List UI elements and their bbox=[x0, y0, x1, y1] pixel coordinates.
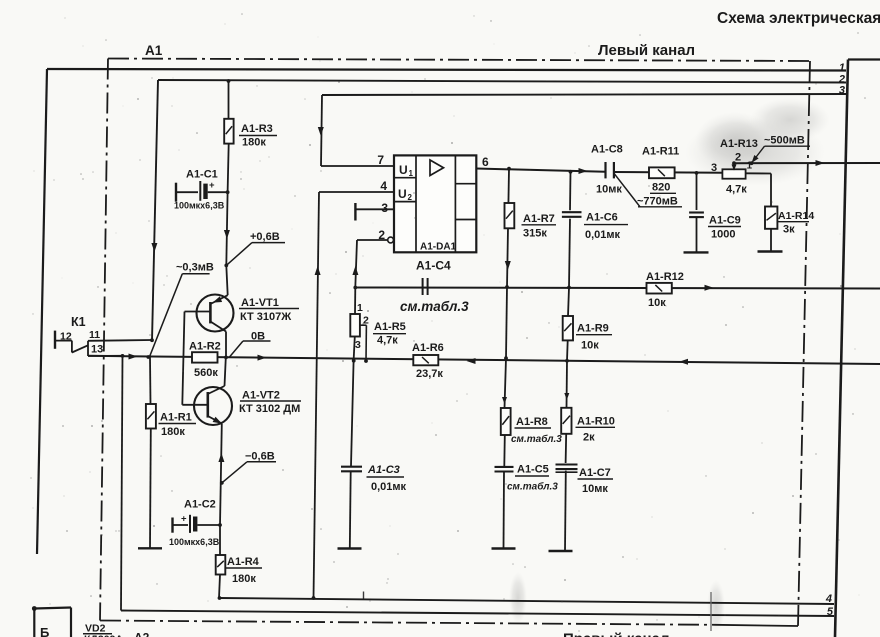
svg-text:А1-R8: А1-R8 bbox=[516, 416, 548, 428]
svg-text:А2: А2 bbox=[134, 631, 150, 637]
svg-text:А1-R11: А1-R11 bbox=[642, 146, 679, 158]
svg-text:3: 3 bbox=[355, 339, 361, 351]
svg-text:11: 11 bbox=[89, 329, 100, 341]
svg-text:А1-DA1: А1-DA1 bbox=[420, 242, 457, 253]
svg-text:см.табл.3: см.табл.3 bbox=[400, 299, 469, 314]
svg-text:0,01мк: 0,01мк bbox=[371, 481, 407, 493]
svg-text:А1: А1 bbox=[145, 43, 163, 58]
svg-text:4,7к: 4,7к bbox=[726, 184, 747, 196]
svg-text:−0,6В: −0,6В bbox=[245, 451, 275, 463]
svg-text:А1-R7: А1-R7 bbox=[523, 213, 555, 225]
svg-text:U: U bbox=[398, 187, 407, 201]
svg-text:3к: 3к bbox=[783, 224, 795, 236]
svg-text:10к: 10к bbox=[648, 297, 666, 309]
svg-text:23,7к: 23,7к bbox=[416, 368, 443, 380]
svg-text:А1-С4: А1-С4 bbox=[416, 259, 451, 273]
svg-text:А1-R5: А1-R5 bbox=[374, 321, 406, 333]
svg-text:А1-С8: А1-С8 bbox=[591, 144, 623, 156]
svg-text:3: 3 bbox=[839, 85, 845, 97]
svg-text:180к: 180к bbox=[161, 426, 185, 438]
svg-text:~0,3мВ: ~0,3мВ bbox=[176, 262, 214, 274]
svg-text:~770мВ: ~770мВ bbox=[637, 196, 678, 208]
svg-text:А1-R4: А1-R4 bbox=[227, 556, 260, 568]
svg-text:А1-VT2: А1-VT2 bbox=[242, 390, 280, 402]
svg-text:А1-С3: А1-С3 bbox=[367, 464, 400, 476]
svg-text:12: 12 bbox=[60, 331, 72, 343]
svg-text:см.табл.3: см.табл.3 bbox=[511, 433, 562, 445]
svg-text:Б: Б bbox=[40, 625, 49, 637]
svg-text:КТ 3102 ДМ: КТ 3102 ДМ bbox=[239, 403, 300, 415]
svg-text:1000: 1000 bbox=[711, 229, 735, 241]
svg-text:3: 3 bbox=[381, 201, 388, 215]
svg-text:А1-R10: А1-R10 bbox=[577, 416, 615, 428]
svg-text:4: 4 bbox=[380, 179, 387, 193]
svg-text:КД209А: КД209А bbox=[84, 634, 123, 637]
svg-text:100мкх6,3В: 100мкх6,3В bbox=[174, 201, 225, 211]
svg-text:180к: 180к bbox=[232, 573, 256, 585]
svg-text:А1-С9: А1-С9 bbox=[709, 215, 741, 227]
svg-text:А1-R9: А1-R9 bbox=[577, 323, 609, 335]
svg-text:3: 3 bbox=[711, 162, 717, 174]
svg-text:А1-R6: А1-R6 bbox=[412, 342, 444, 354]
svg-text:А1-С6: А1-С6 bbox=[586, 212, 618, 224]
svg-text:А1-R12: А1-R12 bbox=[646, 271, 684, 283]
svg-text:100мкх6,3В: 100мкх6,3В bbox=[169, 537, 220, 547]
svg-text:+: + bbox=[181, 514, 187, 525]
svg-text:А1-С7: А1-С7 bbox=[579, 467, 611, 479]
svg-text:0,01мк: 0,01мк bbox=[585, 229, 621, 241]
svg-text:10мк: 10мк bbox=[582, 483, 608, 495]
svg-text:см.табл.3: см.табл.3 bbox=[507, 481, 558, 493]
svg-text:560к: 560к bbox=[194, 367, 218, 379]
svg-text:10мк: 10мк bbox=[596, 184, 622, 196]
svg-text:К1: К1 bbox=[71, 315, 86, 329]
svg-text:2: 2 bbox=[735, 152, 741, 164]
svg-text:А1-С5: А1-С5 bbox=[517, 464, 549, 476]
svg-text:~500мВ: ~500мВ bbox=[764, 135, 805, 147]
svg-text:КТ 3107Ж: КТ 3107Ж bbox=[240, 311, 291, 323]
svg-text:А1-R2: А1-R2 bbox=[189, 341, 221, 353]
svg-text:+0,6В: +0,6В bbox=[250, 231, 280, 243]
svg-text:6: 6 bbox=[482, 155, 489, 169]
svg-text:7: 7 bbox=[377, 153, 384, 167]
svg-text:Левый канал: Левый канал bbox=[598, 42, 695, 59]
svg-text:Схема электрическая: Схема электрическая bbox=[717, 10, 880, 27]
svg-text:А1-VT1: А1-VT1 bbox=[241, 297, 279, 309]
svg-text:1: 1 bbox=[357, 302, 363, 314]
svg-text:U: U bbox=[399, 163, 408, 177]
svg-text:10к: 10к bbox=[581, 340, 599, 352]
svg-text:А1-С1: А1-С1 bbox=[186, 169, 218, 181]
svg-text:1: 1 bbox=[839, 62, 845, 74]
svg-text:5: 5 bbox=[827, 606, 834, 618]
svg-text:2: 2 bbox=[363, 315, 369, 327]
svg-text:А1-R3: А1-R3 bbox=[241, 123, 273, 135]
svg-text:13: 13 bbox=[91, 344, 103, 356]
svg-text:180к: 180к bbox=[242, 137, 266, 149]
svg-text:4,7к: 4,7к bbox=[377, 335, 398, 347]
svg-text:4: 4 bbox=[825, 593, 832, 605]
svg-text:А1-R14: А1-R14 bbox=[778, 210, 814, 222]
svg-text:2: 2 bbox=[408, 193, 413, 202]
svg-text:1: 1 bbox=[409, 169, 414, 178]
svg-text:А1-R1: А1-R1 bbox=[160, 412, 192, 424]
svg-text:820: 820 bbox=[652, 182, 670, 194]
svg-text:2: 2 bbox=[378, 228, 385, 242]
svg-text:+: + bbox=[209, 180, 215, 191]
svg-text:А1-С2: А1-С2 bbox=[184, 499, 216, 511]
svg-text:А1-R13: А1-R13 bbox=[720, 138, 758, 150]
svg-text:315к: 315к bbox=[523, 228, 547, 240]
svg-text:2к: 2к bbox=[583, 432, 595, 444]
